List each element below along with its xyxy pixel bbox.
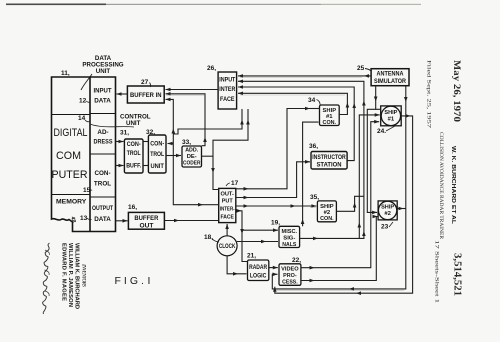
svg-text:DRESS: DRESS <box>94 139 113 146</box>
wire antenna branch down to ship2 <box>367 109 377 212</box>
wire decoder output to riser B <box>202 155 214 157</box>
wire output data to buffer out <box>116 220 128 222</box>
svg-text:May 26, 1970: May 26, 1970 <box>452 60 462 123</box>
svg-text:AD-: AD- <box>97 129 108 136</box>
arrow into ship1 from misc feed <box>375 113 380 117</box>
arrow into ship2 from video <box>373 215 378 219</box>
ship 2 unit (23) <box>378 201 397 220</box>
wire antenna simulator to input interface <box>238 75 371 77</box>
svg-text:MISC.: MISC. <box>282 229 298 235</box>
svg-text:CON-: CON- <box>94 170 110 177</box>
arrow up on buffer-in low riser <box>172 129 176 134</box>
svg-text:24.: 24. <box>377 128 386 135</box>
svg-text:PUTER: PUTER <box>52 169 88 181</box>
arrow left on bus1 bottom <box>349 287 354 291</box>
svg-text:BUFFER IN: BUFFER IN <box>130 92 162 99</box>
arrow into buffer out <box>123 219 128 223</box>
svg-text:DE-: DE- <box>187 154 197 160</box>
svg-text:21,: 21, <box>247 253 256 260</box>
computer internal dividers <box>52 114 116 198</box>
arrow into output interface left low <box>198 203 203 207</box>
arrow up riser A <box>240 120 244 125</box>
svg-text:12: 12 <box>79 98 87 105</box>
arrow up bus2 riser low <box>362 231 366 236</box>
wire ship2con out joining bus2 riser <box>336 196 364 211</box>
arrow down antenna to ship1 <box>374 97 378 102</box>
svg-text:SIMULATOR: SIMULATOR <box>374 78 406 85</box>
svg-text:FACE: FACE <box>220 96 235 103</box>
arrow up misc riser <box>301 219 305 224</box>
arrow on ship2con feed <box>244 204 249 208</box>
DIGITAL COMPUTER text <box>52 127 88 181</box>
svg-text:16,: 16, <box>128 204 137 211</box>
svg-text:FACE: FACE <box>220 215 234 221</box>
svg-text:35,: 35, <box>310 194 319 201</box>
svg-text:BUFFER: BUFFER <box>134 215 158 222</box>
arrow right at out4 corner <box>237 209 242 213</box>
wire output interface to ship1 con <box>236 109 310 189</box>
svg-text:36,: 36, <box>309 143 318 150</box>
svg-text:UNIT: UNIT <box>126 120 141 127</box>
wire antenna simulator down to ship1 <box>376 86 381 110</box>
wire output interface to radar logic and misc <box>236 211 248 262</box>
svg-text:WILLIAM P. JAMESON: WILLIAM P. JAMESON <box>67 243 73 307</box>
wire address to control buffer <box>116 141 124 143</box>
arrow into buffer in low <box>166 98 171 102</box>
video processor box (22) <box>279 264 301 286</box>
wire clock to radar logic <box>227 256 246 274</box>
input interface box (26) <box>218 72 237 109</box>
wire control to control buffer <box>116 165 124 167</box>
svg-text:INSTRUCTOR: INSTRUCTOR <box>312 154 346 161</box>
instructor station box (36) <box>311 152 347 170</box>
svg-text:17: 17 <box>231 180 239 187</box>
svg-text:3,514,521: 3,514,521 <box>451 253 462 296</box>
svg-text:SHIP: SHIP <box>381 205 394 211</box>
svg-text:OUT: OUT <box>139 223 153 230</box>
svg-text:SHIP: SHIP <box>384 110 397 116</box>
arrow up bus4 riser <box>346 103 350 108</box>
output interface box (17) <box>219 188 236 222</box>
svg-text:LOGIC: LOGIC <box>250 274 267 280</box>
svg-text:33,: 33, <box>182 139 191 146</box>
top scan edge line <box>6 4 106 6</box>
wire misc out to bus2 riser <box>238 81 364 238</box>
svg-text:25: 25 <box>357 65 365 72</box>
ship 1 unit (24) <box>381 106 402 126</box>
wire clock to output interface <box>226 224 228 236</box>
inventors block <box>61 243 87 309</box>
radar logic box (21) <box>248 260 269 281</box>
arrow into ship2con <box>311 204 316 208</box>
svg-text:W. K. BURCHARD ET AL: W. K. BURCHARD ET AL <box>450 146 456 225</box>
arrow clock to radar <box>233 272 238 276</box>
address decoder box (33) <box>182 146 202 167</box>
data processing unit label <box>82 55 123 75</box>
arrow into buffer in top <box>166 88 171 92</box>
wire branch into control unit box <box>168 143 174 145</box>
arrow up ship2con riser <box>353 203 357 208</box>
computer main box (11) <box>52 77 116 232</box>
svg-text:DATA: DATA <box>94 216 111 223</box>
wire ship1 out down to bus0 <box>275 116 413 293</box>
arrow into input interface bus2 <box>238 80 243 84</box>
leader 14 to control unit <box>90 124 134 127</box>
svg-text:CLOCK: CLOCK <box>219 244 236 250</box>
wire video out1 to ship1 <box>301 122 379 268</box>
wire output interface to instructor station <box>236 162 310 198</box>
svg-text:14: 14 <box>78 115 86 122</box>
svg-text:INPUT: INPUT <box>94 88 112 95</box>
svg-text:32,: 32, <box>146 129 155 136</box>
svg-text:SIG-: SIG- <box>283 236 295 242</box>
ship 2 con box (35) <box>317 201 336 222</box>
svg-text:PUT: PUT <box>222 199 233 205</box>
arrow into buffer in mid <box>166 92 171 96</box>
wire input-interface to buffer-in top <box>166 89 219 91</box>
arrow mid ship2con feed <box>291 204 296 208</box>
arrow on ship1 out <box>406 114 411 118</box>
svg-text:23: 23 <box>381 224 389 231</box>
wire buffer out to output interface <box>164 220 218 222</box>
svg-text:15-: 15- <box>83 187 92 194</box>
control unit label <box>120 114 151 128</box>
scan ghost lines <box>166 77 404 290</box>
svg-text:13: 13 <box>80 215 88 222</box>
svg-text:OUTPUT: OUTPUT <box>92 205 113 212</box>
wire interface bottom riser B to output interface top <box>213 109 248 190</box>
svg-text:INTER: INTER <box>219 86 235 93</box>
svg-text:COM: COM <box>56 150 81 162</box>
arrow on ship2 out <box>399 207 404 211</box>
column texts <box>92 88 113 224</box>
wire buffer-in mid feed from decoder riser <box>166 94 206 146</box>
arrow up bus2 riser high <box>362 101 366 106</box>
wire instructor out to bus3 riser <box>238 87 354 161</box>
arrow into input data <box>117 92 122 96</box>
wire ship1con out to bus4 riser <box>238 93 347 114</box>
svg-text:INVENTORS: INVENTORS <box>81 263 87 287</box>
svg-text:CON-: CON- <box>150 141 164 148</box>
wire misc riser to ship1 feed <box>359 115 379 238</box>
ship 1 con box (34) <box>320 105 340 126</box>
arrow on antenna sim out <box>364 74 369 78</box>
arrow left on bus0 bottom <box>356 291 361 295</box>
svg-text:#2: #2 <box>384 211 391 217</box>
svg-text:17 Sheets-Sheet 1: 17 Sheets-Sheet 1 <box>434 240 440 304</box>
svg-text:RADAR: RADAR <box>249 265 268 271</box>
arrow on video out2 <box>310 279 315 283</box>
svg-text:TROL: TROL <box>150 151 164 158</box>
svg-text:19,: 19, <box>271 220 280 227</box>
svg-text:DIGITAL: DIGITAL <box>54 127 88 139</box>
handwritten signature <box>43 243 50 314</box>
svg-text:DATA: DATA <box>94 98 111 105</box>
wire misc riser to ship1con lower feed <box>303 122 319 226</box>
svg-text:MEMORY: MEMORY <box>56 199 87 206</box>
svg-text:ADD.: ADD. <box>185 148 198 154</box>
buffer in box (27) <box>127 86 164 103</box>
arrow up into video bottom <box>273 287 277 292</box>
arrow up misc-ship1 riser <box>358 223 362 228</box>
arrow up riser B <box>246 120 250 125</box>
svg-text:UNIT: UNIT <box>96 68 111 75</box>
wire branch to misc signals <box>242 229 278 231</box>
arrow on ship1con feed near box <box>244 187 249 191</box>
buffer out box (16) <box>128 212 164 229</box>
svg-text:CON.: CON. <box>320 216 334 222</box>
arrow on instructor feed <box>244 196 249 200</box>
svg-text:34: 34 <box>308 97 316 104</box>
wire radar logic to video processor <box>269 267 278 269</box>
svg-text:PRO-: PRO- <box>283 273 297 279</box>
wire link 31-32 upper <box>143 141 148 143</box>
svg-text:31,: 31, <box>120 130 129 137</box>
arrow into misc from riser <box>273 228 278 232</box>
wire buffer-in low feed riser to output interface <box>166 99 204 204</box>
arrow into video left from bus1 <box>273 273 278 277</box>
wire output interface to ship2 con <box>236 205 317 207</box>
arrow into input interface bus4 <box>238 92 243 96</box>
wire video out2 to ship2 <box>301 217 378 281</box>
wire clock to misc signals <box>237 241 278 243</box>
arrow down antenna right drop <box>404 97 408 102</box>
arrow up bus3 riser high <box>352 103 356 108</box>
arrow down to radar on riser <box>240 229 244 234</box>
svg-text:INTER-: INTER- <box>220 207 235 213</box>
wire control unit to decoder <box>166 155 181 157</box>
svg-text:STATION: STATION <box>317 162 342 169</box>
arrow into control buffer upper <box>119 140 124 144</box>
svg-text:VIDEO: VIDEO <box>281 267 299 273</box>
svg-text:11,: 11, <box>61 70 70 77</box>
svg-text:26,: 26, <box>207 65 216 72</box>
arrow into input interface bus3 <box>238 85 243 89</box>
arrow into ship1 from video <box>374 120 379 124</box>
svg-text:CON-: CON- <box>127 141 141 148</box>
svg-text:OUT-: OUT- <box>220 192 234 198</box>
arrow into control buffer lower <box>119 164 124 168</box>
svg-text:TROL: TROL <box>127 150 141 157</box>
wire antenna simulator down right to bus1 <box>272 86 406 289</box>
control buffer box (31) <box>124 139 143 173</box>
svg-text:CON.: CON. <box>323 120 337 126</box>
arrow into input interface bus1 <box>238 74 243 78</box>
arrow on misc out <box>313 237 318 241</box>
svg-text:18,: 18, <box>204 234 213 241</box>
arrow into ship2 from antenna drop <box>372 211 377 215</box>
arrow up on decoder riser <box>203 137 207 142</box>
svg-text:COLLISION AVOIDANCE RADAR TRAI: COLLISION AVOIDANCE RADAR TRAINER <box>438 132 444 240</box>
arrow on buffer out line <box>174 219 179 223</box>
leader for data processing unit <box>81 74 92 90</box>
svg-text:FIG.: FIG. <box>115 275 147 287</box>
arrow on video out1 <box>310 266 315 270</box>
arrow into instructor station <box>305 160 310 164</box>
svg-text:WILLIAM K. BURCHARD: WILLIAM K. BURCHARD <box>74 243 80 309</box>
svg-text:EDWARD F. MAGEE: EDWARD F. MAGEE <box>61 243 67 301</box>
wire buffer-in to input-data <box>117 93 128 95</box>
svg-text:NALS: NALS <box>282 242 296 248</box>
control unit box (32) <box>148 135 166 173</box>
svg-text:ANTENNA: ANTENNA <box>377 71 404 78</box>
svg-text:Filed Sept. 25, 1957: Filed Sept. 25, 1957 <box>426 60 432 129</box>
arrow down riser B lower <box>211 168 215 173</box>
antenna simulator box (25) <box>371 69 409 86</box>
svg-text:#1: #1 <box>388 117 395 123</box>
arrow clock into output interface <box>225 224 229 229</box>
svg-text:INPUT: INPUT <box>219 77 235 84</box>
clock circle (18) <box>217 236 237 256</box>
svg-text:UNIT: UNIT <box>150 163 164 170</box>
svg-text:27: 27 <box>141 79 149 86</box>
svg-text:I: I <box>148 275 151 287</box>
svg-text:CODER: CODER <box>183 161 201 167</box>
arrow into control unit box right <box>168 142 173 146</box>
svg-text:CESS.: CESS. <box>282 280 298 286</box>
svg-text:BUFF.: BUFF. <box>126 163 141 170</box>
svg-text:22,: 22, <box>292 257 301 264</box>
arrow into decoder <box>176 154 181 158</box>
arrow into misc from clock <box>261 240 266 244</box>
arrow into ship1 con <box>305 107 310 111</box>
wire interface bottom riser A with jog <box>173 109 242 134</box>
wire link 31-32 lower <box>143 165 148 167</box>
svg-text:TROL: TROL <box>94 181 111 188</box>
arrow radar to video <box>273 266 278 270</box>
wire ship2 out to antenna drop <box>397 208 406 210</box>
misc signals box (19) <box>279 226 300 247</box>
